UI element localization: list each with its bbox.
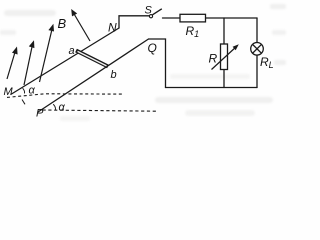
wire Q corner [149,39,166,88]
angle arc at P [53,104,55,110]
svg-text:B: B [58,16,67,31]
field arrow 3 [40,24,55,82]
svg-text:N: N [108,21,117,35]
svg-text:a: a [69,45,75,57]
svg-text:S: S [145,5,153,17]
lamp RL [251,43,264,56]
svg-text:M: M [4,86,14,98]
svg-text:α: α [29,85,36,97]
wire R1 to right corner [206,17,258,19]
field arrow 4 (B arrow) [71,9,90,41]
rail PQ (bottom rail of incline) [38,39,149,112]
svg-text:α: α [59,102,66,114]
svg-text:Q: Q [148,41,157,55]
field arrow 2 [24,40,34,85]
angle arc at M [23,88,25,93]
faint scan bleed-through smudges [0,4,286,121]
rail MN (top rail of incline) [12,28,120,94]
wire junction down to rheostat R [223,18,225,44]
tick below M [22,100,25,105]
wire lamp to bottom wire [256,55,258,87]
rheostat arrow [212,44,239,69]
svg-text:R: R [209,52,218,66]
svg-text:b: b [111,69,117,81]
wire switch to R1 [163,17,181,19]
bottom wire [166,87,258,89]
resistor R1 [180,14,206,22]
dashed horizontal line at P [43,110,158,111]
dashed horizontal line at M [7,94,123,98]
switch S [149,9,161,18]
wire right corner down to lamp [256,18,258,43]
wire rheostat R to bottom wire [223,70,225,88]
svg-text:P: P [36,108,44,120]
rheostat R (variable resistor) [221,44,228,70]
wire N corner to switch [119,16,149,28]
field arrow 1 [7,47,18,80]
rod ab (double line) [76,51,108,67]
